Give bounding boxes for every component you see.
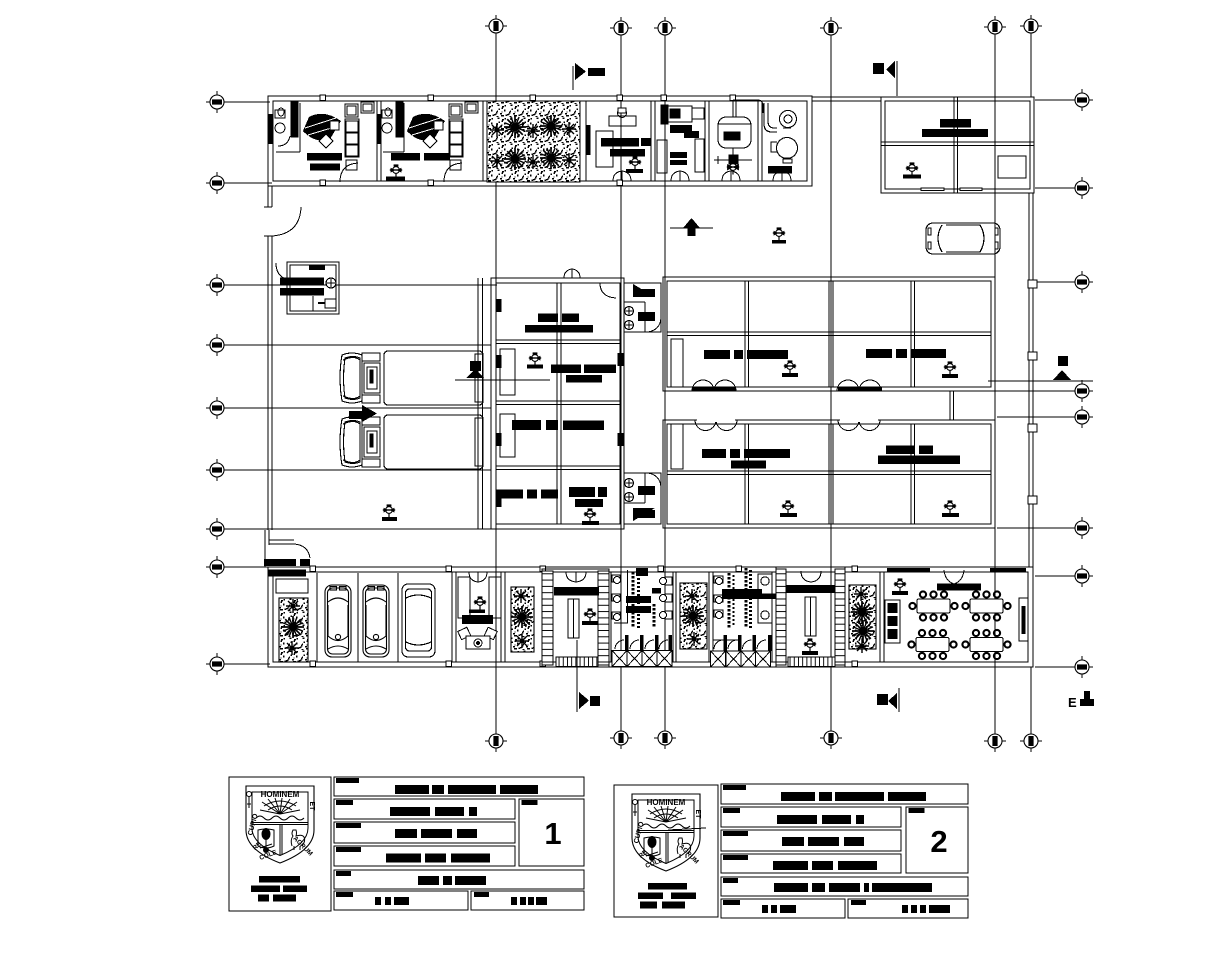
mid-left block dividers xyxy=(556,283,558,524)
truck 2 body xyxy=(384,415,483,469)
section marker top-right flag xyxy=(873,61,897,96)
title block 1 number box xyxy=(519,799,584,866)
WC room 2 xyxy=(709,572,776,662)
courtyard car xyxy=(926,223,1000,254)
title block 1 emblem xyxy=(246,786,315,863)
section marker top-left flag xyxy=(573,63,605,90)
mid-right block lower division xyxy=(667,470,991,472)
truck 1 body xyxy=(384,351,483,405)
office 2 side table xyxy=(434,121,443,130)
title block 1 row 2a xyxy=(334,799,515,819)
central WC pod bottom xyxy=(624,473,661,524)
stair 2 door xyxy=(801,571,821,582)
stair room 1 xyxy=(542,569,609,667)
car 2 xyxy=(363,585,389,657)
courtyard benchmark low xyxy=(383,504,395,517)
mid-right upper benchmark right xyxy=(944,361,956,374)
office 1 diamond chair xyxy=(319,134,333,148)
WC room 1 stall boxes xyxy=(625,635,672,651)
office 2 door arc xyxy=(444,163,462,182)
room 4 label bars xyxy=(670,125,692,133)
office 2 sofas xyxy=(449,102,478,170)
mid-right lower benchmark left xyxy=(782,500,794,513)
truck 2 cab xyxy=(340,417,380,467)
truck bay lines xyxy=(478,278,483,529)
planting box 3 xyxy=(680,583,707,649)
room 3 benchmark xyxy=(629,156,641,169)
WC room 2 stalls xyxy=(724,635,772,651)
top-right block label bar 1 xyxy=(940,119,971,128)
meeting room benchmark xyxy=(894,578,906,591)
office 1 desk fan xyxy=(303,114,341,141)
mid-right upper bars left xyxy=(704,350,730,359)
title block 1 row 3 xyxy=(334,870,584,889)
top room band outer wall xyxy=(268,96,881,186)
meeting room top bar xyxy=(937,584,981,591)
top band double doors xyxy=(613,171,791,181)
office 1 sofas xyxy=(345,102,374,170)
meeting room cabinet xyxy=(885,600,900,643)
title block 2 emblem caption bars xyxy=(648,883,687,890)
small WC room door arc xyxy=(276,263,292,280)
office 2 label bar 1 xyxy=(391,153,420,161)
office 2 diamond chair xyxy=(423,134,437,148)
grid circles right xyxy=(1071,89,1093,111)
grid horizontal lines right xyxy=(940,100,1093,667)
bottom office door xyxy=(469,572,487,582)
title block 2 row 3 xyxy=(721,877,968,896)
grid vertical line F xyxy=(1030,33,1032,97)
title block 1 row 4 left xyxy=(334,891,468,910)
mid-right block upper division xyxy=(667,331,991,333)
mid-left room2 bars xyxy=(551,365,581,374)
title block 2 row 2b xyxy=(721,830,901,851)
mid-right upper bars right xyxy=(866,349,892,358)
small WC label bar 1 xyxy=(280,278,324,286)
top-right block closet xyxy=(998,156,1026,178)
small WC label bar 2 xyxy=(280,288,324,296)
room 5 tank xyxy=(718,100,763,158)
garden plants row 1 xyxy=(490,123,504,137)
title block 1 emblem caption bars xyxy=(259,876,300,883)
planting box 4 xyxy=(849,585,876,649)
office 2 desk fan xyxy=(407,114,445,141)
title block 2 emblem xyxy=(632,794,701,871)
top band wall column squares xyxy=(320,95,736,186)
mid-right upper band doors xyxy=(692,380,881,431)
wall black fill xyxy=(586,125,591,155)
office 2 benchmark xyxy=(390,164,402,177)
room 6 pump xyxy=(764,103,798,163)
title block 2 row 4 left xyxy=(721,899,845,918)
courtyard north arrow xyxy=(670,218,713,236)
svg-text:2: 2 xyxy=(930,824,947,859)
mid-right upper benchmark left xyxy=(784,360,796,373)
mid-left door arc top xyxy=(600,283,616,298)
svg-text:1: 1 xyxy=(544,816,561,851)
mid-left room3 bars xyxy=(512,420,541,430)
title block 1 row 2c xyxy=(334,846,515,866)
room 4 machine xyxy=(657,105,704,173)
title block 2 stray line xyxy=(668,828,706,830)
elevation mark E xyxy=(1068,691,1094,710)
title block 1 row 2b xyxy=(334,822,515,843)
mid-left room4 benchmark xyxy=(584,508,596,521)
wall black fills offices xyxy=(268,114,273,144)
section marker mid-right xyxy=(988,356,1093,381)
mid-left block inner partitions xyxy=(500,349,515,395)
courtyard benchmark xyxy=(773,227,785,240)
bottom office room xyxy=(452,572,505,662)
stair 1 core xyxy=(568,599,579,638)
small WC toilet xyxy=(326,278,336,288)
top band room divider walls xyxy=(377,101,762,181)
stair room 2 xyxy=(776,567,845,667)
small WC room top-left xyxy=(287,262,339,314)
bottom office benchmark xyxy=(474,596,486,609)
left boundary door arc xyxy=(272,207,301,236)
garden courtyard hatch xyxy=(487,101,580,182)
mid-right lower bars left xyxy=(702,449,726,458)
garden plants row 2 xyxy=(490,154,504,168)
truck 1 cab xyxy=(340,353,380,403)
title block 2 row 2a xyxy=(721,807,901,827)
mid-left room4 bars xyxy=(496,490,523,499)
stair 2 benchmark xyxy=(804,638,816,651)
title block 2 row 1 xyxy=(721,784,968,804)
right boundary wall xyxy=(1028,193,1037,567)
mid-left room2 benchmark xyxy=(529,352,541,365)
grid horizontal lines left xyxy=(206,102,497,664)
meeting tables xyxy=(909,591,957,620)
meeting room door xyxy=(944,570,964,584)
title block 1 emblem box xyxy=(229,777,331,911)
small WC sink xyxy=(325,299,336,308)
office 2 interior xyxy=(382,101,404,152)
svg-text:E: E xyxy=(1068,695,1077,710)
section marker mid-left xyxy=(455,361,550,380)
title block 1 row 4 right xyxy=(471,891,584,910)
office 1 label bar 2 xyxy=(310,164,340,171)
grid vertical line D xyxy=(830,35,832,731)
room 5 valve xyxy=(714,155,752,175)
stair 2 bar xyxy=(786,585,835,593)
title block 2 number box xyxy=(906,807,968,873)
room 3 label bars xyxy=(601,138,639,147)
grid vertical line C xyxy=(664,35,666,731)
meeting room top wall black segments xyxy=(887,568,930,573)
mid-left room1 bars xyxy=(538,314,558,323)
section marker bottom-left flag xyxy=(577,640,600,712)
office 2 label bar 2 xyxy=(424,153,450,161)
meeting room xyxy=(880,572,884,662)
stair 1 benchmark xyxy=(584,608,596,621)
stair 1 door xyxy=(566,572,586,582)
bottom office bar xyxy=(462,615,493,624)
office 1 label bar 1 xyxy=(307,153,342,161)
bottom-left vestibule xyxy=(265,530,310,593)
top-right block door threshold xyxy=(921,188,944,191)
car 1 xyxy=(325,585,351,657)
bottom-left ramp bars xyxy=(264,559,296,566)
planting box 1 xyxy=(279,598,308,662)
title block 2 emblem box xyxy=(614,785,718,917)
grid circles bottom xyxy=(485,730,507,752)
office 1 side table xyxy=(330,121,339,130)
room 3 equipment xyxy=(596,108,636,167)
corridor end wall xyxy=(949,391,951,420)
top-right block benchmark xyxy=(906,162,918,175)
grid circles top xyxy=(485,15,507,37)
stair 1 bar xyxy=(554,587,599,596)
truck 2 direction arrow xyxy=(349,411,362,419)
section marker bottom-right flag xyxy=(877,688,899,712)
grid vertical line E xyxy=(994,34,996,733)
mid-right lower benchmark right xyxy=(944,500,956,513)
car stall lines xyxy=(317,573,398,662)
mid-right vertical dividers xyxy=(744,281,746,387)
grid circles left xyxy=(206,91,228,113)
meeting room sideboard xyxy=(1019,598,1028,641)
office 1 interior xyxy=(275,101,300,152)
bottom office desk xyxy=(458,627,497,649)
mid-right lower bars right xyxy=(886,446,915,455)
stair 2 core xyxy=(805,597,816,636)
mid-right block outer wall xyxy=(663,277,995,528)
top-right block label bar 2 xyxy=(922,129,988,137)
mid-left block outer wall xyxy=(491,278,624,529)
central WC pod top xyxy=(624,283,661,332)
upper-left room partition xyxy=(671,339,683,387)
grid vertical line A xyxy=(496,33,1031,733)
WC room 1 xyxy=(611,572,676,662)
planting box 2 xyxy=(511,587,534,652)
van xyxy=(402,584,435,657)
top-right block inner walls xyxy=(881,141,1034,143)
title block 2 row 2c xyxy=(721,854,901,873)
title block 1 row 1 xyxy=(334,777,584,796)
office 1 door arc xyxy=(340,163,358,182)
door jamb wedges on mid-left block wall xyxy=(496,299,624,507)
title block 2 row 4 right xyxy=(848,899,968,918)
room 6 label bar xyxy=(768,166,792,174)
grid vertical line B xyxy=(620,35,622,731)
bottom band outer wall xyxy=(268,567,1033,667)
top-right block outer wall xyxy=(881,97,1034,193)
bottom band wall squares xyxy=(310,566,858,667)
left site boundary wall xyxy=(264,186,272,530)
